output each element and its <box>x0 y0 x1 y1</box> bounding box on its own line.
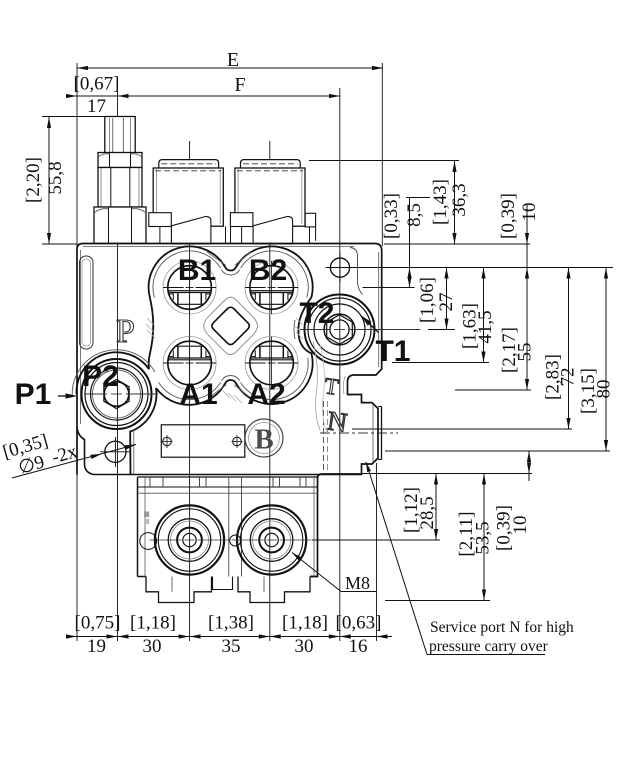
bottom boss spool 2 <box>232 505 312 574</box>
embossed letter N <box>326 405 349 437</box>
extension bar A ports (y=362.5) <box>392 362 489 364</box>
spool cap 2 top lip <box>241 160 301 168</box>
svg-text:28,5: 28,5 <box>417 496 438 529</box>
label 72 <box>558 368 579 387</box>
mounting hole bottom left (phi 9) <box>100 437 131 467</box>
svg-text:53,5: 53,5 <box>473 521 494 554</box>
vertical centerline spool 1 axis (x=189.6) <box>189 141 191 641</box>
label 8,5 <box>404 203 425 227</box>
svg-text:pressure carry over: pressure carry over <box>429 638 549 655</box>
label 28,5 <box>417 496 438 529</box>
leader M8 <box>292 553 376 592</box>
dimension 53,5 line <box>482 474 486 601</box>
body top edge inner line <box>81 247 379 424</box>
center diamond land <box>204 297 258 354</box>
svg-text:[1,18]: [1,18] <box>130 613 176 634</box>
spool cap 1 yoke block <box>149 213 172 227</box>
label phi 9 <box>16 452 47 479</box>
svg-text:M8: M8 <box>345 573 370 593</box>
spool cap 2 body <box>235 168 305 226</box>
label M8 <box>345 573 370 593</box>
note service port line 1 <box>430 619 574 636</box>
svg-text:[0,63]: [0,63] <box>336 613 382 634</box>
label T1 with arrow <box>361 316 411 369</box>
dimension 55,8 / [2,20] vertical line <box>42 117 112 245</box>
extension line bolt hole center (y=267.5) <box>326 267 613 269</box>
svg-text:17: 17 <box>87 96 106 117</box>
casting hatch shading <box>146 252 303 403</box>
label B2 <box>249 254 287 287</box>
label [1,18] b <box>282 613 328 634</box>
label 19 <box>87 636 106 657</box>
leader service port N <box>366 462 545 655</box>
vertical centerline spool 2 axis (x=269.8) <box>269 141 271 641</box>
nameplate <box>161 425 245 457</box>
top right block inner corner <box>350 248 363 295</box>
label [0,63] <box>336 613 382 634</box>
lower section chamfer lines <box>145 477 314 577</box>
label [0,33] <box>381 193 402 239</box>
label 55 <box>515 343 536 362</box>
spool cap 1 body <box>153 168 223 226</box>
label [1,06] <box>417 277 438 323</box>
svg-text:[0,33]: [0,33] <box>381 193 402 239</box>
vertical centerline T axis (x=339.8) <box>339 88 341 641</box>
label T2 <box>299 297 334 330</box>
label [1,38] <box>208 613 254 634</box>
label B1 <box>178 254 216 287</box>
note service port line 2 <box>429 638 549 655</box>
svg-text:[2,20]: [2,20] <box>23 157 44 203</box>
label P2 <box>82 360 119 393</box>
svg-text:80: 80 <box>594 380 615 399</box>
embossed letter P <box>116 313 135 350</box>
svg-text:41,5: 41,5 <box>475 310 496 343</box>
label 30 b <box>295 636 314 657</box>
lower section ribs <box>150 477 306 487</box>
feet outline <box>146 577 310 603</box>
label [2,17] <box>499 327 520 373</box>
label [0,67] <box>74 74 120 95</box>
vertical extension line overall width right (x=382.3) <box>381 63 383 246</box>
extension bar 8,5 (y=287.5) <box>363 287 415 289</box>
nameplate screw left <box>162 435 173 448</box>
svg-text:36,3: 36,3 <box>449 183 470 216</box>
svg-text:A1: A1 <box>179 378 217 411</box>
extension bar T2 center (y=329.5) <box>428 329 455 331</box>
extension line cap top (y=160.5) <box>309 160 459 162</box>
port B2 <box>245 261 298 314</box>
extension bar feet bottom (y=600.5) <box>385 600 490 602</box>
embossed letter T <box>323 373 340 400</box>
svg-text:27: 27 <box>436 293 457 312</box>
bottom dimension chain line <box>66 634 392 638</box>
yoke lines between caps <box>226 227 231 244</box>
raised face inner chamfer line <box>72 251 308 400</box>
extension line body top right (y=244) <box>384 243 530 245</box>
svg-text:10: 10 <box>519 203 540 222</box>
svg-text:16: 16 <box>349 636 368 657</box>
svg-text:B1: B1 <box>178 254 216 287</box>
svg-text:8,5: 8,5 <box>404 203 425 227</box>
main body outline <box>77 244 382 577</box>
left side milled slot <box>80 256 94 349</box>
label [2,11] <box>456 511 477 556</box>
port A1 <box>163 337 216 390</box>
svg-text:P2: P2 <box>82 360 119 393</box>
extension bar N center (y=429) <box>352 428 572 430</box>
label 10 top <box>519 203 540 222</box>
label [0,39] top <box>498 193 519 239</box>
dimension 72 line <box>566 268 570 430</box>
label [0,35] <box>1 430 51 463</box>
label 16 <box>349 636 368 657</box>
port T2 plug <box>324 314 355 345</box>
extension line N boss bottom (y=451) <box>385 450 610 452</box>
label 41,5 <box>475 310 496 343</box>
N boss outer face <box>373 405 382 463</box>
label [0,75] <box>75 613 121 634</box>
lower section outline <box>138 477 318 577</box>
svg-text:E: E <box>227 49 239 71</box>
svg-text:F: F <box>234 74 245 96</box>
label [1,63] <box>460 303 481 349</box>
label 53,5 <box>473 521 494 554</box>
svg-text:30: 30 <box>295 636 314 657</box>
dimension 80 line <box>604 268 608 452</box>
small hole left <box>140 533 157 550</box>
mounting bolt hole top right <box>326 253 355 283</box>
body bottom edge left part <box>77 428 362 475</box>
svg-text:B2: B2 <box>249 254 287 287</box>
label 80 <box>594 380 615 399</box>
spool cap 2 yoke block <box>230 213 253 227</box>
lower section top lines <box>138 487 318 493</box>
label 27 <box>436 293 457 312</box>
spool cap 1 yoke wedge <box>160 216 211 244</box>
label [2,83] <box>543 354 564 400</box>
svg-text:P1: P1 <box>15 378 52 411</box>
dimension E overall width <box>77 49 383 71</box>
svg-text:A2: A2 <box>247 378 285 411</box>
hidden lines N passage <box>324 401 328 470</box>
port B1 <box>163 261 216 314</box>
svg-text:19: 19 <box>87 636 106 657</box>
svg-text:55: 55 <box>515 343 536 362</box>
vertical centerline left edge extension (x=77) <box>76 63 78 641</box>
svg-text:35: 35 <box>222 636 241 657</box>
svg-text:[0,67]: [0,67] <box>74 74 120 95</box>
svg-text:[0,39]: [0,39] <box>498 193 519 239</box>
port T2 boss rings <box>305 295 375 365</box>
P2 horizontal centerline <box>84 393 158 395</box>
label [3,15] <box>578 368 599 414</box>
spool cap 2 yoke wedge <box>242 216 293 244</box>
label [1,12] <box>401 487 422 533</box>
relief valve lock nut <box>98 153 142 168</box>
dimension F and 17 line <box>66 74 340 98</box>
svg-text:[1,06]: [1,06] <box>417 277 438 323</box>
svg-text:30: 30 <box>143 636 162 657</box>
extension line body bottom (y=473.5) <box>362 473 532 475</box>
svg-text:T1: T1 <box>375 335 410 368</box>
small hole middle <box>230 535 241 546</box>
dimension 36,3 line <box>452 161 456 244</box>
label [0,39] lower <box>494 505 515 551</box>
svg-text:55,8: 55,8 <box>45 161 66 194</box>
label 17 <box>87 96 106 117</box>
nameplate screw right <box>232 435 243 448</box>
casting curves T column <box>313 341 345 433</box>
dimension 28,5 line <box>434 474 438 541</box>
dimension 27 line <box>444 268 448 330</box>
vertical centerline P axis / relief valve axis (x=117.5) <box>117 88 119 641</box>
extension bar boss center (y=540) <box>312 539 440 541</box>
svg-text:[1,18]: [1,18] <box>282 613 328 634</box>
svg-text:Service port N for high: Service port N for high <box>430 619 574 636</box>
N boss centerline <box>320 432 398 434</box>
label [2,20] <box>23 157 44 203</box>
svg-text:[0,75]: [0,75] <box>75 613 121 634</box>
relief valve base hex <box>94 207 146 244</box>
dimension 8,5 line <box>406 198 430 288</box>
svg-text:P: P <box>116 313 135 350</box>
svg-text:T2: T2 <box>299 297 334 330</box>
relief valve stem <box>105 117 135 154</box>
label A2 <box>247 378 285 411</box>
label 36,3 <box>449 183 470 216</box>
leader phi 9 holes <box>12 445 136 479</box>
hidden marks lower left <box>144 512 149 525</box>
svg-text:[1,43]: [1,43] <box>430 179 451 225</box>
dimension 41,5 line <box>481 268 485 363</box>
label -2x <box>49 441 80 468</box>
relief valve adjuster body <box>98 168 142 208</box>
logo medallion <box>245 419 283 457</box>
port P2 plug <box>104 380 129 409</box>
spool cap 1 top lip <box>159 160 219 168</box>
label 10 lower <box>510 516 531 535</box>
label [1,18] a <box>130 613 176 634</box>
raised port face outline (quatrefoil) <box>76 246 312 474</box>
label [1,43] <box>430 179 451 225</box>
svg-text:B: B <box>254 424 273 456</box>
label P1 with arrow <box>15 378 78 411</box>
port P2 boss rings <box>82 359 152 429</box>
T2 horizontal centerline <box>300 329 421 331</box>
label 55,8 <box>45 161 66 194</box>
svg-text:[1,38]: [1,38] <box>208 613 254 634</box>
yoke tab right of cap 2 <box>305 213 315 243</box>
label 35 <box>222 636 241 657</box>
svg-text:72: 72 <box>558 368 579 387</box>
dimension 10 lower line <box>527 451 531 481</box>
label A1 <box>179 378 217 411</box>
extension bar P2 center (y=390) <box>455 389 531 391</box>
bottom boss spool 1 <box>150 505 230 574</box>
svg-text:10: 10 <box>510 516 531 535</box>
port A2 <box>245 337 298 390</box>
dimension 10 top and 55 line <box>525 205 529 390</box>
label 30 a <box>143 636 162 657</box>
vertical extension line lower right (x=376.5) <box>376 463 378 641</box>
